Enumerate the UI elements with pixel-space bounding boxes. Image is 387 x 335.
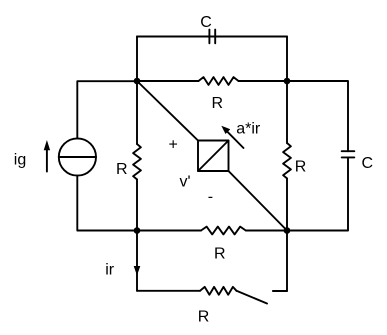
resistor R1 (left vertical) [133, 144, 141, 179]
wire right capacitor loop bottom [287, 157, 348, 230]
svg-text:R: R [212, 95, 224, 112]
wire left bottom from source to node C [77, 176, 137, 231]
wire bottom horizontal node C to resistor [137, 230, 201, 232]
dependent source U1 square [198, 141, 229, 172]
wire [246, 230, 287, 232]
svg-text:-: - [208, 189, 213, 206]
svg-text:R: R [198, 308, 210, 325]
wire top capacitor loop [137, 37, 287, 82]
svg-text:C: C [362, 155, 374, 172]
wire lowest branch right riser [286, 231, 288, 292]
wire left top from source to node A [77, 81, 137, 138]
capacitor C1 plates [137, 30, 287, 44]
wire right vertical upper segment [286, 81, 288, 143]
svg-text:R: R [295, 159, 307, 176]
resistor R4 (bottom horizontal) [201, 227, 246, 235]
wire right capacitor loop top [287, 81, 348, 151]
current source IG circle [59, 138, 96, 175]
svg-text:ir: ir [105, 262, 115, 279]
switch S1 blade [237, 291, 268, 304]
wire top horizontal node A to node B [137, 80, 199, 82]
resistor R3 (right vertical) [283, 143, 291, 178]
arrow ir direction [134, 266, 141, 276]
svg-text:+: + [169, 137, 178, 154]
resistor R5 (lowest branch) [200, 287, 237, 295]
node A junction dot [134, 78, 141, 85]
capacitor C2 plates [342, 151, 355, 157]
wire diagonal from dependent source to node D [229, 171, 288, 231]
svg-text:v': v' [180, 174, 191, 191]
resistor R2 (top horizontal) [199, 77, 239, 85]
svg-text:C: C [200, 14, 212, 31]
wire left vertical upper segment [136, 81, 138, 144]
svg-text:R: R [116, 161, 128, 178]
current source IG bar [59, 156, 96, 158]
svg-text:R: R [214, 245, 226, 262]
arrow ig direction [44, 140, 50, 172]
node C junction dot [134, 227, 141, 234]
wire [239, 80, 288, 82]
wire ir branch vertical with arrow [136, 231, 138, 291]
switch S1 contact stub [273, 290, 287, 292]
svg-text:ig: ig [14, 151, 26, 168]
wire diagonal from node A to dependent source [137, 81, 198, 141]
arrow a*ir [221, 126, 243, 148]
dependent source U1 inner diagonal [198, 141, 229, 172]
node D junction dot [284, 227, 291, 234]
wire right vertical lower segment [286, 178, 288, 230]
wire lowest branch left [137, 290, 200, 292]
wire left vertical lower segment [136, 179, 138, 230]
node B junction dot [284, 78, 291, 85]
svg-text:a*ir: a*ir [236, 121, 261, 138]
